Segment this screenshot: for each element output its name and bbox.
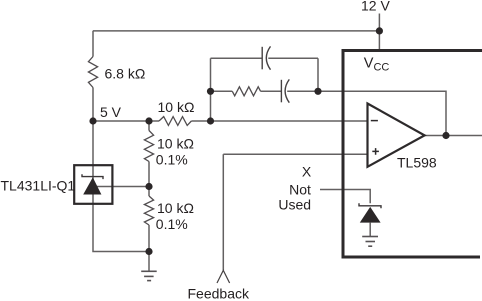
junction 12V [376, 27, 383, 34]
junction ground node [145, 248, 152, 255]
svg-text:10 kΩ: 10 kΩ [158, 99, 195, 115]
resistor 10k horizontal zigzag [159, 117, 191, 126]
svg-text:10 kΩ: 10 kΩ [157, 136, 194, 152]
wire 5V rail left segment [93, 120, 159, 122]
wire RC right vertical [317, 58, 319, 91]
resistor 6.8k zigzag [88, 57, 97, 88]
svg-text:TL431LI-Q1: TL431LI-Q1 [1, 178, 76, 194]
internal reference diode triangle [360, 207, 381, 223]
svg-text:12 V: 12 V [361, 0, 390, 14]
TL431LI-Q1 anode triangle [83, 177, 101, 194]
junction RC mid right [314, 88, 321, 95]
wire not-used pin [320, 190, 370, 204]
junction 5V node [89, 117, 96, 124]
label TL598 [397, 154, 437, 170]
resistor 10k 0.1% upper zigzag [144, 131, 153, 162]
internal reference diode cathode bar [359, 203, 381, 208]
wire top branch left [211, 57, 263, 59]
junction RC bottom [207, 117, 214, 124]
svg-text:0.1%: 0.1% [156, 216, 188, 232]
label 12 V [361, 0, 390, 14]
capacitor C1 plates [262, 46, 270, 69]
shunt regulator TL431LI-Q1 body box [74, 165, 112, 204]
ground symbol left [141, 271, 157, 280]
label 6.8 kOhm [105, 66, 146, 82]
junction divider mid [145, 183, 152, 190]
op-amp plus marker [372, 148, 379, 155]
ground symbol internal [362, 237, 378, 247]
svg-text:10 kΩ: 10 kΩ [157, 200, 194, 216]
wire feedback drop [222, 154, 224, 270]
svg-text:Used: Used [278, 196, 311, 212]
label Used [278, 196, 311, 212]
resistor 10k 0.1% lower zigzag [144, 196, 153, 225]
svg-text:Not: Not [289, 181, 311, 197]
svg-text:Feedback: Feedback [188, 286, 250, 301]
junction output [442, 132, 449, 139]
wire divider middle lead [148, 162, 150, 197]
label 10 kOhm horizontal [158, 99, 195, 115]
wire top rail 12V to 6.8k [93, 30, 379, 32]
wire TL431 reference to divider node [97, 186, 150, 188]
IC border TL598 [343, 51, 482, 258]
svg-text:TL598: TL598 [397, 154, 437, 170]
wire mid branch middle [261, 90, 282, 92]
svg-text:X: X [302, 164, 312, 180]
svg-text:5 V: 5 V [100, 104, 122, 120]
label 0.1% lower divider [156, 216, 188, 232]
wire top branch right [268, 57, 318, 59]
resistor RC zigzag [232, 87, 260, 96]
wire op-amp non-inverting input [223, 153, 367, 155]
op-amp U1 triangle [368, 104, 425, 167]
svg-text:6.8 kΩ: 6.8 kΩ [105, 66, 146, 82]
wire compensation to output node [318, 91, 446, 135]
wire divider bottom lead [148, 225, 150, 271]
TL431LI-Q1 cathode bar [82, 174, 103, 179]
label 0.1% upper divider [156, 152, 188, 168]
wire diode to ground [369, 223, 371, 237]
label Not [289, 181, 311, 197]
wire 6.8k to 5V node [92, 88, 94, 122]
label TL431LI-Q1 [1, 178, 76, 194]
label VCC [364, 56, 390, 74]
wire 5V rail to op-amp inverting input [191, 120, 367, 122]
wire op-amp output [425, 135, 482, 137]
RC network left vertical [210, 58, 212, 121]
wire divider top lead [148, 121, 150, 131]
label 5 V [100, 104, 122, 120]
op-amp minus marker [371, 120, 378, 122]
svg-text:0.1%: 0.1% [156, 152, 188, 168]
wire mid branch left [211, 90, 233, 92]
label X [302, 164, 312, 180]
label 10 kOhm upper divider [157, 136, 194, 152]
wire left rail through TL431 to ground corner [93, 121, 149, 252]
junction RC mid left [207, 88, 214, 95]
label Feedback [188, 286, 250, 301]
capacitor C2 plates [281, 79, 289, 102]
wire left rail top [92, 31, 94, 57]
wire 12V stub [378, 14, 380, 51]
wire mid branch right [287, 90, 318, 92]
feedback arrowhead [217, 270, 230, 283]
label 10 kOhm lower divider [157, 200, 194, 216]
junction divider top [145, 117, 152, 124]
